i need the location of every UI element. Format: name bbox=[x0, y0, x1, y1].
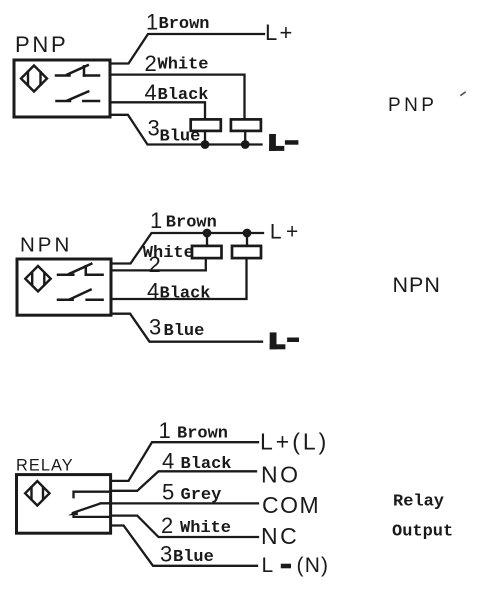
svg-text:2: 2 bbox=[161, 513, 173, 538]
svg-text:NO: NO bbox=[261, 462, 301, 488]
wire R2 to L- rail bbox=[244, 131, 246, 145]
junction dot NPN left bbox=[203, 229, 212, 238]
svg-text:1: 1 bbox=[150, 208, 162, 233]
svg-text:2: 2 bbox=[145, 51, 157, 76]
svg-text:(N): (N) bbox=[297, 554, 330, 577]
wire 1 brown PNP to L+ bbox=[110, 34, 264, 64]
svg-text:Blue: Blue bbox=[164, 322, 205, 341]
svg-text:+: + bbox=[286, 220, 298, 243]
relay armature COM with arrow bbox=[73, 503, 111, 512]
wire 1 brown RELAY to L+(L) bbox=[111, 442, 258, 481]
stray tick mark bbox=[461, 92, 465, 95]
svg-text:Output: Output bbox=[392, 522, 453, 541]
svg-text:+: + bbox=[280, 20, 293, 45]
svg-text:3: 3 bbox=[160, 542, 172, 567]
svg-text:Blue: Blue bbox=[160, 128, 201, 147]
svg-text:COM: COM bbox=[262, 492, 320, 518]
switch contact S2 (NPN bottom) bbox=[58, 290, 103, 300]
proximity sensor diamond symbol RELAY bbox=[25, 481, 49, 505]
wire 2 white NPN to load R1 bbox=[111, 258, 206, 270]
junction dot PNP left bbox=[201, 140, 210, 149]
svg-text:Blue: Blue bbox=[173, 548, 214, 567]
svg-text:3: 3 bbox=[149, 315, 161, 340]
wire 4 black RELAY to NO bbox=[111, 471, 256, 491]
svg-text:4: 4 bbox=[162, 449, 174, 474]
wire 2 white RELAY to NC bbox=[111, 516, 258, 537]
svg-text:PNP: PNP bbox=[388, 95, 437, 116]
proximity sensor diamond symbol PNP bbox=[21, 66, 47, 92]
wire 1 brown NPN to L+ rail bbox=[111, 233, 263, 264]
wire dot to load R2 bbox=[246, 233, 248, 246]
svg-text:White: White bbox=[180, 519, 231, 538]
wire dot to load R1 bbox=[206, 233, 208, 246]
relay contact NC lead bbox=[74, 513, 111, 517]
load resistor R2 NPN bbox=[232, 246, 261, 258]
terminal symbol L- NPN (bold) bbox=[270, 332, 299, 349]
sensor body RELAY bbox=[17, 475, 111, 534]
svg-text:L: L bbox=[262, 554, 274, 577]
load resistor R2 PNP bbox=[231, 119, 261, 130]
svg-text:Black: Black bbox=[160, 285, 211, 304]
proximity sensor diamond symbol NPN bbox=[25, 266, 50, 291]
wire 3 blue PNP to L- bbox=[110, 115, 262, 145]
svg-text:1: 1 bbox=[159, 418, 171, 443]
svg-text:NC: NC bbox=[261, 523, 299, 549]
switch contact S1 (NPN top, with riser) bbox=[58, 264, 103, 275]
wire 2 white PNP to load R2 bbox=[110, 75, 245, 120]
terminal symbol L- PNP (bold) bbox=[269, 134, 298, 151]
switch contact S1 (PNP top, NO with riser) bbox=[56, 65, 99, 75]
sensor body NPN bbox=[17, 259, 111, 315]
sensor body PNP bbox=[14, 60, 110, 117]
svg-text:4: 4 bbox=[145, 80, 157, 105]
switch contact S2 (PNP bottom) bbox=[57, 92, 100, 102]
svg-text:1: 1 bbox=[146, 10, 158, 35]
svg-text:L+(L): L+(L) bbox=[260, 429, 329, 455]
load resistor R1 PNP bbox=[191, 119, 221, 130]
svg-text:White: White bbox=[158, 56, 209, 75]
wire 4 black NPN to load R2 bbox=[111, 258, 247, 299]
junction dot NPN right bbox=[243, 229, 252, 238]
svg-text:Brown: Brown bbox=[177, 425, 228, 444]
svg-text:Brown: Brown bbox=[159, 15, 210, 34]
svg-text:NPN: NPN bbox=[393, 273, 441, 297]
wire 3 blue RELAY to L-(N) bbox=[111, 526, 257, 566]
wire 3 blue NPN to L- bbox=[111, 314, 262, 342]
svg-text:PNP: PNP bbox=[15, 32, 68, 57]
relay contact NO lead bbox=[74, 492, 111, 498]
svg-text:Black: Black bbox=[158, 86, 209, 105]
wire 5 grey RELAY to COM bbox=[101, 502, 258, 504]
junction dot PNP right bbox=[241, 140, 250, 149]
svg-text:4: 4 bbox=[147, 279, 159, 304]
svg-text:Grey: Grey bbox=[181, 486, 222, 505]
wire 4 black PNP to load R1 bbox=[110, 102, 205, 119]
svg-text:Black: Black bbox=[181, 455, 232, 474]
svg-text:L: L bbox=[270, 220, 282, 243]
svg-text:L: L bbox=[265, 20, 277, 45]
svg-text:NPN: NPN bbox=[20, 233, 72, 256]
svg-text:5: 5 bbox=[162, 480, 174, 505]
svg-text:2: 2 bbox=[149, 252, 161, 277]
load resistor R1 NPN bbox=[192, 246, 222, 258]
svg-text:3: 3 bbox=[148, 116, 160, 141]
wire R1 to L- rail bbox=[204, 131, 206, 145]
svg-text:Relay: Relay bbox=[393, 493, 444, 512]
svg-text:RELAY: RELAY bbox=[16, 457, 74, 475]
